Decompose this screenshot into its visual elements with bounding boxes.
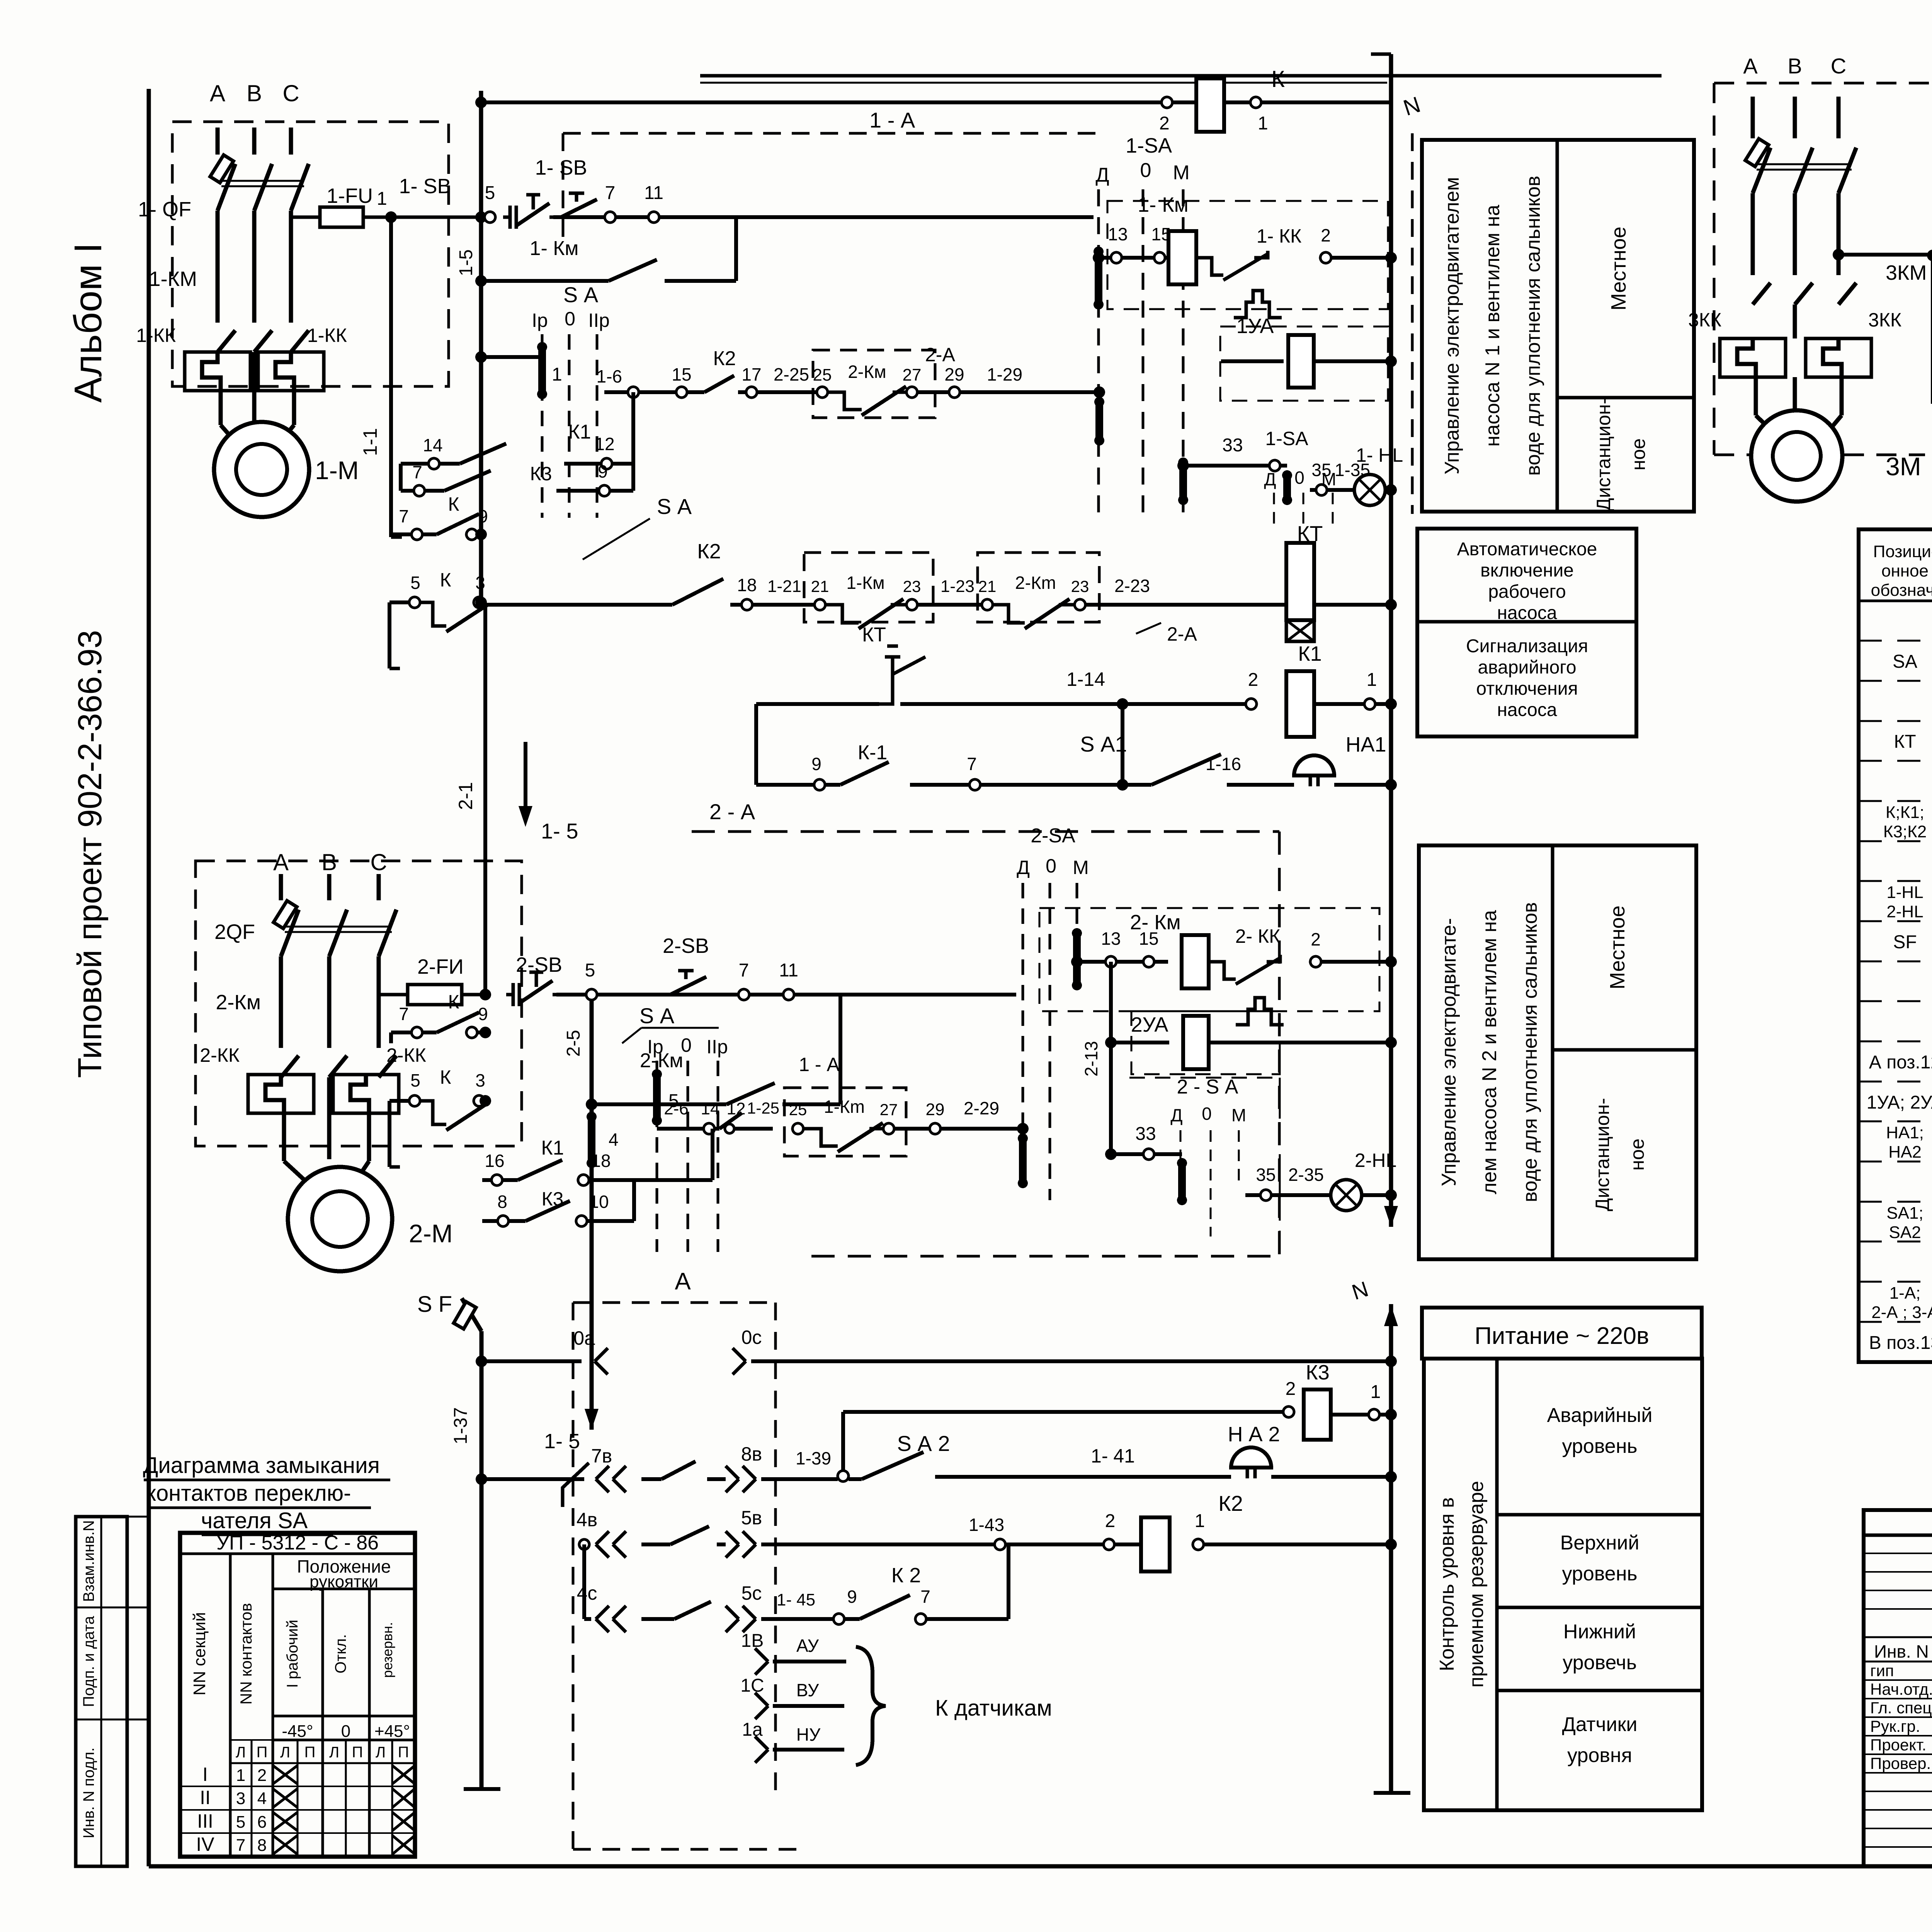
svg-text:чателя SА: чателя SА bbox=[201, 1508, 308, 1533]
svg-text:1: 1 bbox=[552, 364, 562, 385]
contactor coil rung 1-KM bbox=[1099, 256, 1111, 260]
svg-text:21: 21 bbox=[811, 577, 829, 595]
svg-text:К: К bbox=[448, 991, 459, 1013]
svg-text:гип: гип bbox=[1870, 1662, 1894, 1680]
svg-text:12: 12 bbox=[595, 434, 614, 454]
svg-text:К: К bbox=[1271, 66, 1285, 92]
svg-text:онное: онное bbox=[1881, 561, 1929, 580]
svg-text:9: 9 bbox=[811, 754, 821, 774]
bus N bottom section bbox=[1389, 1304, 1393, 1793]
svg-text:КТ: КТ bbox=[1894, 731, 1916, 752]
svg-text:17: 17 bbox=[742, 364, 761, 384]
svg-text:7: 7 bbox=[236, 1836, 245, 1855]
svg-text:Дистанцион-: Дистанцион- bbox=[1592, 1098, 1613, 1211]
svg-text:1-16: 1-16 bbox=[1206, 754, 1241, 774]
svg-text:2-Кm: 2-Кm bbox=[1015, 573, 1056, 593]
svg-text:11: 11 bbox=[779, 960, 798, 981]
svg-text:А поз.12: А поз.12 bbox=[1869, 1052, 1932, 1073]
svg-text:5: 5 bbox=[410, 1070, 420, 1090]
svg-text:S F: S F bbox=[417, 1292, 452, 1317]
svg-text:Диаграмма замыкания: Диаграмма замыкания bbox=[143, 1453, 380, 1478]
svg-text:Местное: Местное bbox=[1606, 905, 1629, 989]
lamp select rung 33 circuit 2 bbox=[1111, 1152, 1143, 1156]
svg-text:1-25: 1-25 bbox=[747, 1099, 779, 1117]
svg-text:1-SА: 1-SА bbox=[1265, 428, 1308, 449]
svg-text:IIр: IIр bbox=[706, 1036, 728, 1058]
svg-text:А: А bbox=[675, 1268, 691, 1295]
svg-text:Инв. N: Инв. N bbox=[1874, 1641, 1929, 1662]
svg-text:1В: 1В bbox=[741, 1631, 764, 1651]
svg-text:0: 0 bbox=[1202, 1104, 1212, 1124]
svg-text:9: 9 bbox=[598, 461, 608, 481]
svg-text:П: П bbox=[257, 1744, 268, 1761]
svg-text:29: 29 bbox=[926, 1100, 945, 1119]
circuit-2 power cabinet dashed box bbox=[196, 861, 522, 1146]
svg-text:13: 13 bbox=[1101, 929, 1121, 949]
svg-text:Рук.гр.: Рук.гр. bbox=[1870, 1717, 1920, 1735]
svg-text:4с: 4с bbox=[577, 1582, 597, 1604]
wire phases mid circuit 1 bbox=[216, 211, 220, 323]
svg-text:Нач.отд.: Нач.отд. bbox=[1870, 1680, 1932, 1698]
svg-text:2QF: 2QF bbox=[214, 920, 255, 944]
svg-text:2-А: 2-А bbox=[925, 344, 955, 366]
cabinet 1-A dashed box around 1-KM contact bbox=[804, 553, 933, 622]
svg-text:В поз.13: В поз.13 bbox=[1869, 1333, 1932, 1353]
svg-text:Л: Л bbox=[329, 1744, 339, 1761]
wire phases mid circuit 3 bbox=[1751, 193, 1755, 275]
svg-text:Дистанцион-: Дистанцион- bbox=[1593, 398, 1614, 511]
contactor coil rung 2-KM bbox=[1077, 960, 1105, 964]
svg-text:К2: К2 bbox=[697, 540, 721, 563]
svg-text:аварийного: аварийного bbox=[1478, 657, 1576, 678]
wires to motor 3 bbox=[1754, 377, 1758, 415]
svg-text:1-6: 1-6 bbox=[597, 366, 622, 386]
svg-text:9: 9 bbox=[478, 506, 488, 526]
svg-text:11: 11 bbox=[644, 183, 663, 203]
svg-text:Автоматическое: Автоматическое bbox=[1457, 539, 1597, 560]
svg-text:рабочего: рабочего bbox=[1488, 582, 1566, 602]
svg-text:А: А bbox=[210, 80, 225, 106]
svg-text:НА2: НА2 bbox=[1888, 1143, 1922, 1162]
svg-text:рукоятки: рукоятки bbox=[310, 1572, 378, 1591]
svg-text:К: К bbox=[440, 1066, 451, 1088]
svg-text:6: 6 bbox=[257, 1813, 267, 1832]
annotation box power supply bbox=[1422, 1308, 1702, 1359]
svg-text:уровечь: уровечь bbox=[1563, 1651, 1637, 1674]
svg-text:16: 16 bbox=[485, 1151, 504, 1171]
svg-text:5: 5 bbox=[485, 183, 495, 203]
bus circuit 1 vertical 1-5 bbox=[479, 91, 483, 605]
svg-text:2: 2 bbox=[1248, 670, 1259, 690]
svg-text:0с: 0с bbox=[742, 1327, 762, 1348]
svg-text:1- 45: 1- 45 bbox=[777, 1590, 815, 1609]
SA cam bar D lower circuit 1 bbox=[1095, 402, 1103, 440]
wire phases lower circuit 1 bbox=[252, 352, 257, 391]
cabinet 1-A dashed box around 1-KM contact on valve rung 2 bbox=[784, 1088, 906, 1156]
svg-text:1- 5: 1- 5 bbox=[541, 819, 578, 843]
svg-text:М: М bbox=[1173, 162, 1189, 184]
dashed box around 1-KM rung bbox=[1107, 201, 1388, 309]
svg-text:35: 35 bbox=[1256, 1165, 1276, 1185]
svg-text:1-14: 1-14 bbox=[1066, 668, 1105, 690]
bus circuit 2 vertical 2-5 bbox=[590, 995, 594, 1430]
annotation box pump 1 control bbox=[1422, 140, 1694, 512]
contact 1-KM NC on KT rung bbox=[815, 599, 825, 610]
svg-text:1: 1 bbox=[377, 189, 387, 209]
wire 2-1 vertical to circuit 2 bbox=[483, 605, 487, 995]
svg-text:1-HL: 1-HL bbox=[1886, 883, 1923, 902]
svg-text:1-КК: 1-КК bbox=[136, 325, 176, 346]
svg-text:1-37: 1-37 bbox=[451, 1407, 471, 1444]
svg-text:9: 9 bbox=[847, 1587, 857, 1607]
dashed box around 2UA bbox=[1131, 1011, 1280, 1074]
cabinet dashed lines circuit 1 bbox=[563, 132, 1095, 135]
svg-text:2 - А: 2 - А bbox=[709, 799, 755, 824]
svg-text:1-23: 1-23 bbox=[940, 577, 975, 596]
svg-text:Верхний: Верхний bbox=[1560, 1532, 1639, 1554]
svg-text:К2: К2 bbox=[713, 347, 736, 370]
svg-text:уровня: уровня bbox=[1567, 1744, 1632, 1767]
svg-text:1-М: 1-М bbox=[315, 456, 359, 485]
svg-text:23: 23 bbox=[903, 577, 921, 595]
svg-text:Провер.: Провер. bbox=[1870, 1754, 1931, 1772]
annotation box pump 2 control bbox=[1419, 845, 1696, 1259]
svg-text:А: А bbox=[273, 849, 289, 875]
svg-text:2-13: 2-13 bbox=[1081, 1041, 1101, 1077]
svg-text:I: I bbox=[202, 1764, 208, 1785]
relay K3 rung bbox=[843, 1410, 1283, 1414]
svg-text:1-5: 1-5 bbox=[456, 249, 476, 276]
svg-text:3: 3 bbox=[475, 1070, 485, 1090]
svg-text:К-1: К-1 bbox=[858, 742, 888, 764]
svg-text:1-39: 1-39 bbox=[796, 1448, 831, 1468]
svg-text:NN контактов: NN контактов bbox=[237, 1603, 255, 1704]
svg-text:2-SB: 2-SB bbox=[663, 934, 709, 957]
wire 1-5 drop arrow bbox=[524, 742, 527, 815]
svg-text:0: 0 bbox=[1046, 855, 1056, 877]
svg-text:5: 5 bbox=[585, 960, 595, 981]
svg-text:насоса: насоса bbox=[1497, 603, 1557, 623]
svg-text:С: С bbox=[370, 849, 387, 875]
svg-text:Управление электродвигателем: Управление электродвигателем bbox=[1441, 177, 1463, 474]
wire 1-41 to bell bbox=[981, 1475, 1231, 1479]
valve control rung circuit 1 bbox=[604, 390, 628, 394]
svg-text:1- Км: 1- Км bbox=[1138, 193, 1189, 216]
wire phases mid circuit 2 bbox=[279, 956, 283, 1048]
svg-text:II: II bbox=[200, 1787, 211, 1808]
svg-text:1-21: 1-21 bbox=[767, 577, 801, 596]
svg-text:приемном резервуаре: приемном резервуаре bbox=[1465, 1481, 1488, 1687]
svg-text:S А 2: S А 2 bbox=[897, 1431, 950, 1456]
svg-text:1-А;: 1-А; bbox=[1889, 1284, 1921, 1303]
svg-text:3М: 3М bbox=[1886, 452, 1921, 481]
svg-text:Л: Л bbox=[280, 1744, 290, 1761]
svg-text:М: М bbox=[1231, 1105, 1246, 1125]
svg-text:3КМ: 3КМ bbox=[1886, 261, 1927, 284]
svg-text:2- Км: 2- Км bbox=[1130, 911, 1181, 934]
svg-text:2-КК: 2-КК bbox=[386, 1044, 426, 1066]
svg-text:2: 2 bbox=[257, 1766, 267, 1785]
SA cam bar D upper bbox=[1095, 252, 1102, 304]
svg-text:0: 0 bbox=[1140, 159, 1151, 182]
svg-text:2-А: 2-А bbox=[1167, 623, 1197, 645]
svg-text:7: 7 bbox=[605, 183, 616, 203]
cabinet 2-A dashed box around 2-KM contact bbox=[813, 350, 935, 418]
svg-text:12: 12 bbox=[727, 1099, 746, 1118]
relay rung K line 1-A bbox=[481, 100, 1391, 104]
svg-text:1-Км: 1-Км bbox=[846, 573, 884, 593]
svg-text:2 - S А: 2 - S А bbox=[1177, 1076, 1238, 1098]
svg-text:Датчики: Датчики bbox=[1562, 1713, 1638, 1736]
contact K rung aux circuit 2 (5 K 3) bbox=[389, 1099, 409, 1103]
svg-text:Н А 2: Н А 2 bbox=[1228, 1423, 1280, 1446]
svg-text:2-SА: 2-SА bbox=[1031, 825, 1075, 847]
svg-text:М: М bbox=[1073, 857, 1089, 878]
svg-text:23: 23 bbox=[1071, 577, 1089, 595]
motor 1-M bbox=[214, 422, 309, 517]
svg-text:П: П bbox=[304, 1744, 316, 1761]
svg-text:Инв. N подл.: Инв. N подл. bbox=[80, 1747, 97, 1838]
svg-text:П: П bbox=[398, 1744, 409, 1761]
valve control rung circuit 2 bbox=[657, 1127, 704, 1131]
relay K1 rung bbox=[756, 702, 879, 706]
svg-text:Взам.инв.N: Взам.инв.N bbox=[80, 1520, 97, 1602]
svg-text:SА1;: SА1; bbox=[1886, 1204, 1923, 1223]
svg-text:4в: 4в bbox=[577, 1509, 597, 1531]
svg-text:2УА: 2УА bbox=[1131, 1013, 1168, 1036]
svg-text:2: 2 bbox=[1159, 113, 1170, 134]
contact K rung aux (5 K 3) bbox=[389, 600, 409, 604]
svg-text:1- SВ: 1- SВ bbox=[399, 175, 451, 198]
svg-text:SF: SF bbox=[1893, 932, 1917, 952]
svg-text:1-Кm: 1-Кm bbox=[824, 1097, 865, 1117]
svg-text:НА1: НА1 bbox=[1345, 733, 1386, 756]
motor 3M bbox=[1751, 410, 1842, 502]
bus wire 1-37 bbox=[480, 1331, 484, 1789]
relay coil K2 bbox=[1141, 1517, 1170, 1571]
svg-text:21: 21 bbox=[978, 577, 997, 595]
svg-text:33: 33 bbox=[1135, 1124, 1156, 1144]
wire 2-13 vertical bbox=[1109, 962, 1113, 1154]
contact 1-KM NC on valve rung 2 bbox=[793, 1123, 803, 1134]
annotation box automatic start bbox=[1417, 529, 1636, 736]
svg-text:1: 1 bbox=[1258, 113, 1268, 134]
lamp rung 1-HL bbox=[1310, 488, 1316, 492]
svg-text:2-5: 2-5 bbox=[563, 1030, 584, 1056]
svg-text:S А: S А bbox=[639, 1003, 675, 1028]
contact K3 rung circuit 2 bbox=[482, 1219, 498, 1223]
lamp select rung 33 circuit 1 bbox=[1183, 464, 1269, 468]
svg-text:7: 7 bbox=[412, 462, 422, 482]
svg-text:2- КК: 2- КК bbox=[1235, 925, 1281, 947]
bus N circuit 1-2 bbox=[1389, 54, 1393, 1227]
KT rung pins bbox=[730, 603, 742, 607]
svg-text:воде для уплотнения сальников: воде для уплотнения сальников bbox=[1522, 176, 1544, 476]
svg-text:SA: SA bbox=[1893, 651, 1917, 672]
rung 4v-5v with K2 coil bbox=[584, 1543, 590, 1546]
svg-text:К;К1;: К;К1; bbox=[1886, 803, 1924, 822]
svg-text:2-HL: 2-HL bbox=[1355, 1150, 1396, 1171]
svg-text:Д: Д bbox=[1017, 857, 1030, 878]
svg-text:2: 2 bbox=[1321, 225, 1331, 245]
contact K-1 rung with SA1 and bell HA1 bbox=[754, 704, 758, 785]
svg-text:Питание ~ 220в: Питание ~ 220в bbox=[1475, 1323, 1649, 1349]
svg-text:7: 7 bbox=[920, 1587, 930, 1607]
svg-text:А: А bbox=[1743, 54, 1758, 78]
svg-text:1- КК: 1- КК bbox=[1257, 225, 1302, 247]
contact K rung aux (7 K 9) bbox=[391, 532, 412, 536]
svg-text:Л: Л bbox=[236, 1744, 246, 1761]
contact K rung aux circuit 2 (7 K 9) bbox=[391, 1031, 412, 1034]
svg-text:14: 14 bbox=[423, 435, 442, 455]
annotation box level control bbox=[1424, 1359, 1702, 1810]
svg-text:Управление электродвигате-: Управление электродвигате- bbox=[1438, 918, 1460, 1186]
wire phase stubs circuit 3 bbox=[1751, 97, 1755, 138]
wire 1-8 16 labels bbox=[603, 604, 606, 606]
svg-text:Iр: Iр bbox=[647, 1036, 663, 1058]
svg-text:2-М: 2-М bbox=[409, 1219, 453, 1248]
svg-text:Д: Д bbox=[1170, 1105, 1182, 1125]
svg-text:2-FИ: 2-FИ bbox=[417, 955, 464, 978]
svg-text:3КК: 3КК bbox=[1868, 309, 1901, 331]
SA cam bar M bbox=[1179, 463, 1187, 500]
svg-text:27: 27 bbox=[903, 366, 922, 384]
svg-text:К1: К1 bbox=[568, 421, 591, 443]
svg-text:7: 7 bbox=[739, 960, 749, 981]
contact K1 rung circuit 2 bbox=[482, 1178, 492, 1182]
svg-text:5: 5 bbox=[410, 573, 420, 593]
svg-text:14: 14 bbox=[701, 1099, 720, 1118]
svg-text:насоса N 1 и вентилем на: насоса N 1 и вентилем на bbox=[1481, 205, 1504, 447]
svg-text:Нижний: Нижний bbox=[1563, 1621, 1636, 1643]
svg-text:-45°: -45° bbox=[282, 1722, 313, 1741]
svg-text:9: 9 bbox=[478, 1004, 488, 1024]
component list table bbox=[1859, 529, 1932, 1362]
svg-text:КТ: КТ bbox=[862, 624, 886, 646]
svg-text:ное: ное bbox=[1626, 1138, 1648, 1170]
svg-text:2-23: 2-23 bbox=[1114, 576, 1150, 596]
svg-text:I рабочий: I рабочий bbox=[284, 1620, 301, 1688]
svg-text:Местное: Местное bbox=[1607, 226, 1630, 310]
rung 0a-0c feed bbox=[481, 1359, 582, 1363]
switch 1-SA dashed columns bbox=[1097, 189, 1100, 514]
rung 7v-8v with SA2 and bell HA2 bbox=[481, 1477, 584, 1481]
svg-text:0: 0 bbox=[681, 1034, 692, 1056]
fuse 1-FU bbox=[291, 216, 320, 219]
svg-text:включение: включение bbox=[1480, 560, 1574, 581]
svg-text:отключения: отключения bbox=[1476, 679, 1578, 699]
svg-text:0: 0 bbox=[565, 308, 575, 330]
svg-text:Iр: Iр bbox=[532, 310, 548, 331]
svg-text:контактов переклю-: контактов переклю- bbox=[146, 1481, 351, 1506]
svg-text:Л: Л bbox=[376, 1744, 386, 1761]
svg-text:1- 5: 1- 5 bbox=[544, 1430, 580, 1453]
svg-text:воде для уплотнения сальников: воде для уплотнения сальников bbox=[1519, 902, 1541, 1202]
svg-text:1: 1 bbox=[236, 1766, 245, 1785]
SA cam bar for 2-KM rung bbox=[1073, 933, 1081, 985]
svg-text:3: 3 bbox=[475, 573, 485, 593]
svg-text:SА2: SА2 bbox=[1889, 1223, 1921, 1242]
contact 2-KM NC on valve rung 1 bbox=[817, 387, 828, 398]
svg-text:29: 29 bbox=[944, 364, 964, 384]
svg-text:2-Км: 2-Км bbox=[848, 362, 886, 382]
svg-text:S А: S А bbox=[657, 494, 692, 519]
svg-text:2-HL: 2-HL bbox=[1886, 902, 1923, 921]
svg-text:5в: 5в bbox=[741, 1507, 762, 1529]
SA cam contact bar Ip bbox=[481, 355, 542, 359]
wire from fuse down circuit 3 bbox=[1816, 253, 1820, 257]
fuse 2-FU bbox=[379, 993, 408, 997]
svg-text:1-FU: 1-FU bbox=[327, 184, 373, 207]
contact K1 rung (SA row 12) bbox=[401, 462, 429, 466]
svg-text:Д: Д bbox=[1095, 164, 1109, 186]
svg-text:4: 4 bbox=[609, 1129, 619, 1150]
svg-text:7в: 7в bbox=[591, 1445, 612, 1467]
svg-text:2-25: 2-25 bbox=[774, 364, 809, 384]
wire phases lower circuit 3 bbox=[1793, 304, 1797, 338]
dashed box around 1UA bbox=[1220, 327, 1388, 401]
svg-text:III: III bbox=[197, 1810, 213, 1832]
dashed box around 2-KM rung bbox=[1039, 908, 1379, 1011]
svg-text:ное: ное bbox=[1628, 438, 1649, 470]
contact 2-KM NC on KT rung bbox=[982, 599, 993, 610]
svg-text:1: 1 bbox=[1367, 670, 1377, 690]
svg-text:15: 15 bbox=[672, 364, 691, 384]
wire phase stubs circuit 1 bbox=[216, 128, 220, 155]
svg-text:1а: 1а bbox=[742, 1719, 763, 1740]
svg-text:1УА; 2УА: 1УА; 2УА bbox=[1867, 1092, 1932, 1113]
svg-text:Альбом I: Альбом I bbox=[66, 243, 110, 403]
SA cam bar on bus circuit 2 bbox=[588, 1117, 595, 1163]
svg-text:2-35: 2-35 bbox=[1288, 1165, 1324, 1185]
rung 4c-5c with contact K2 bbox=[582, 1544, 586, 1619]
svg-text:Гл. спец.: Гл. спец. bbox=[1870, 1699, 1932, 1717]
contact K3 rung (SA row 9) bbox=[401, 489, 414, 493]
svg-text:К1: К1 bbox=[1298, 642, 1322, 665]
svg-text:С: С bbox=[282, 80, 299, 106]
svg-text:18: 18 bbox=[737, 575, 757, 595]
svg-text:1- SB: 1- SB bbox=[535, 156, 587, 179]
svg-text:К 2: К 2 bbox=[891, 1564, 921, 1587]
svg-text:1-43: 1-43 bbox=[969, 1515, 1004, 1535]
svg-text:К3: К3 bbox=[1306, 1361, 1330, 1384]
svg-text:Проект.: Проект. bbox=[1870, 1736, 1926, 1754]
svg-text:13: 13 bbox=[1108, 224, 1128, 244]
svg-text:1-SА: 1-SА bbox=[1126, 134, 1172, 157]
svg-text:Контроль уровня в: Контроль уровня в bbox=[1436, 1497, 1458, 1671]
svg-text:резервн.: резервн. bbox=[379, 1622, 395, 1678]
valve coil rung 2UA bbox=[1111, 1041, 1169, 1044]
sheet frame bbox=[147, 89, 151, 1866]
svg-text:4: 4 bbox=[257, 1789, 267, 1808]
svg-text:ВУ: ВУ bbox=[796, 1680, 819, 1700]
svg-text:2-А ; 3-А: 2-А ; 3-А bbox=[1871, 1303, 1932, 1322]
svg-text:В: В bbox=[247, 80, 262, 106]
svg-text:уровень: уровень bbox=[1562, 1435, 1637, 1458]
svg-text:S А: S А bbox=[563, 282, 599, 307]
svg-text:1- QF: 1- QF bbox=[138, 198, 191, 221]
valve coil rung 1UA bbox=[1221, 359, 1284, 363]
svg-text:25: 25 bbox=[789, 1100, 807, 1119]
wires to motor 2 bbox=[282, 1113, 286, 1161]
svg-text:обознач.: обознач. bbox=[1871, 581, 1932, 600]
cabinet 2-A dashed box around 2-KM contact on KT rung bbox=[978, 553, 1099, 622]
svg-text:IV: IV bbox=[196, 1833, 214, 1855]
svg-text:2: 2 bbox=[1286, 1379, 1296, 1399]
svg-text:2-КК: 2-КК bbox=[200, 1044, 240, 1066]
svg-text:К датчикам: К датчикам bbox=[935, 1696, 1052, 1721]
svg-text:5: 5 bbox=[236, 1813, 245, 1832]
